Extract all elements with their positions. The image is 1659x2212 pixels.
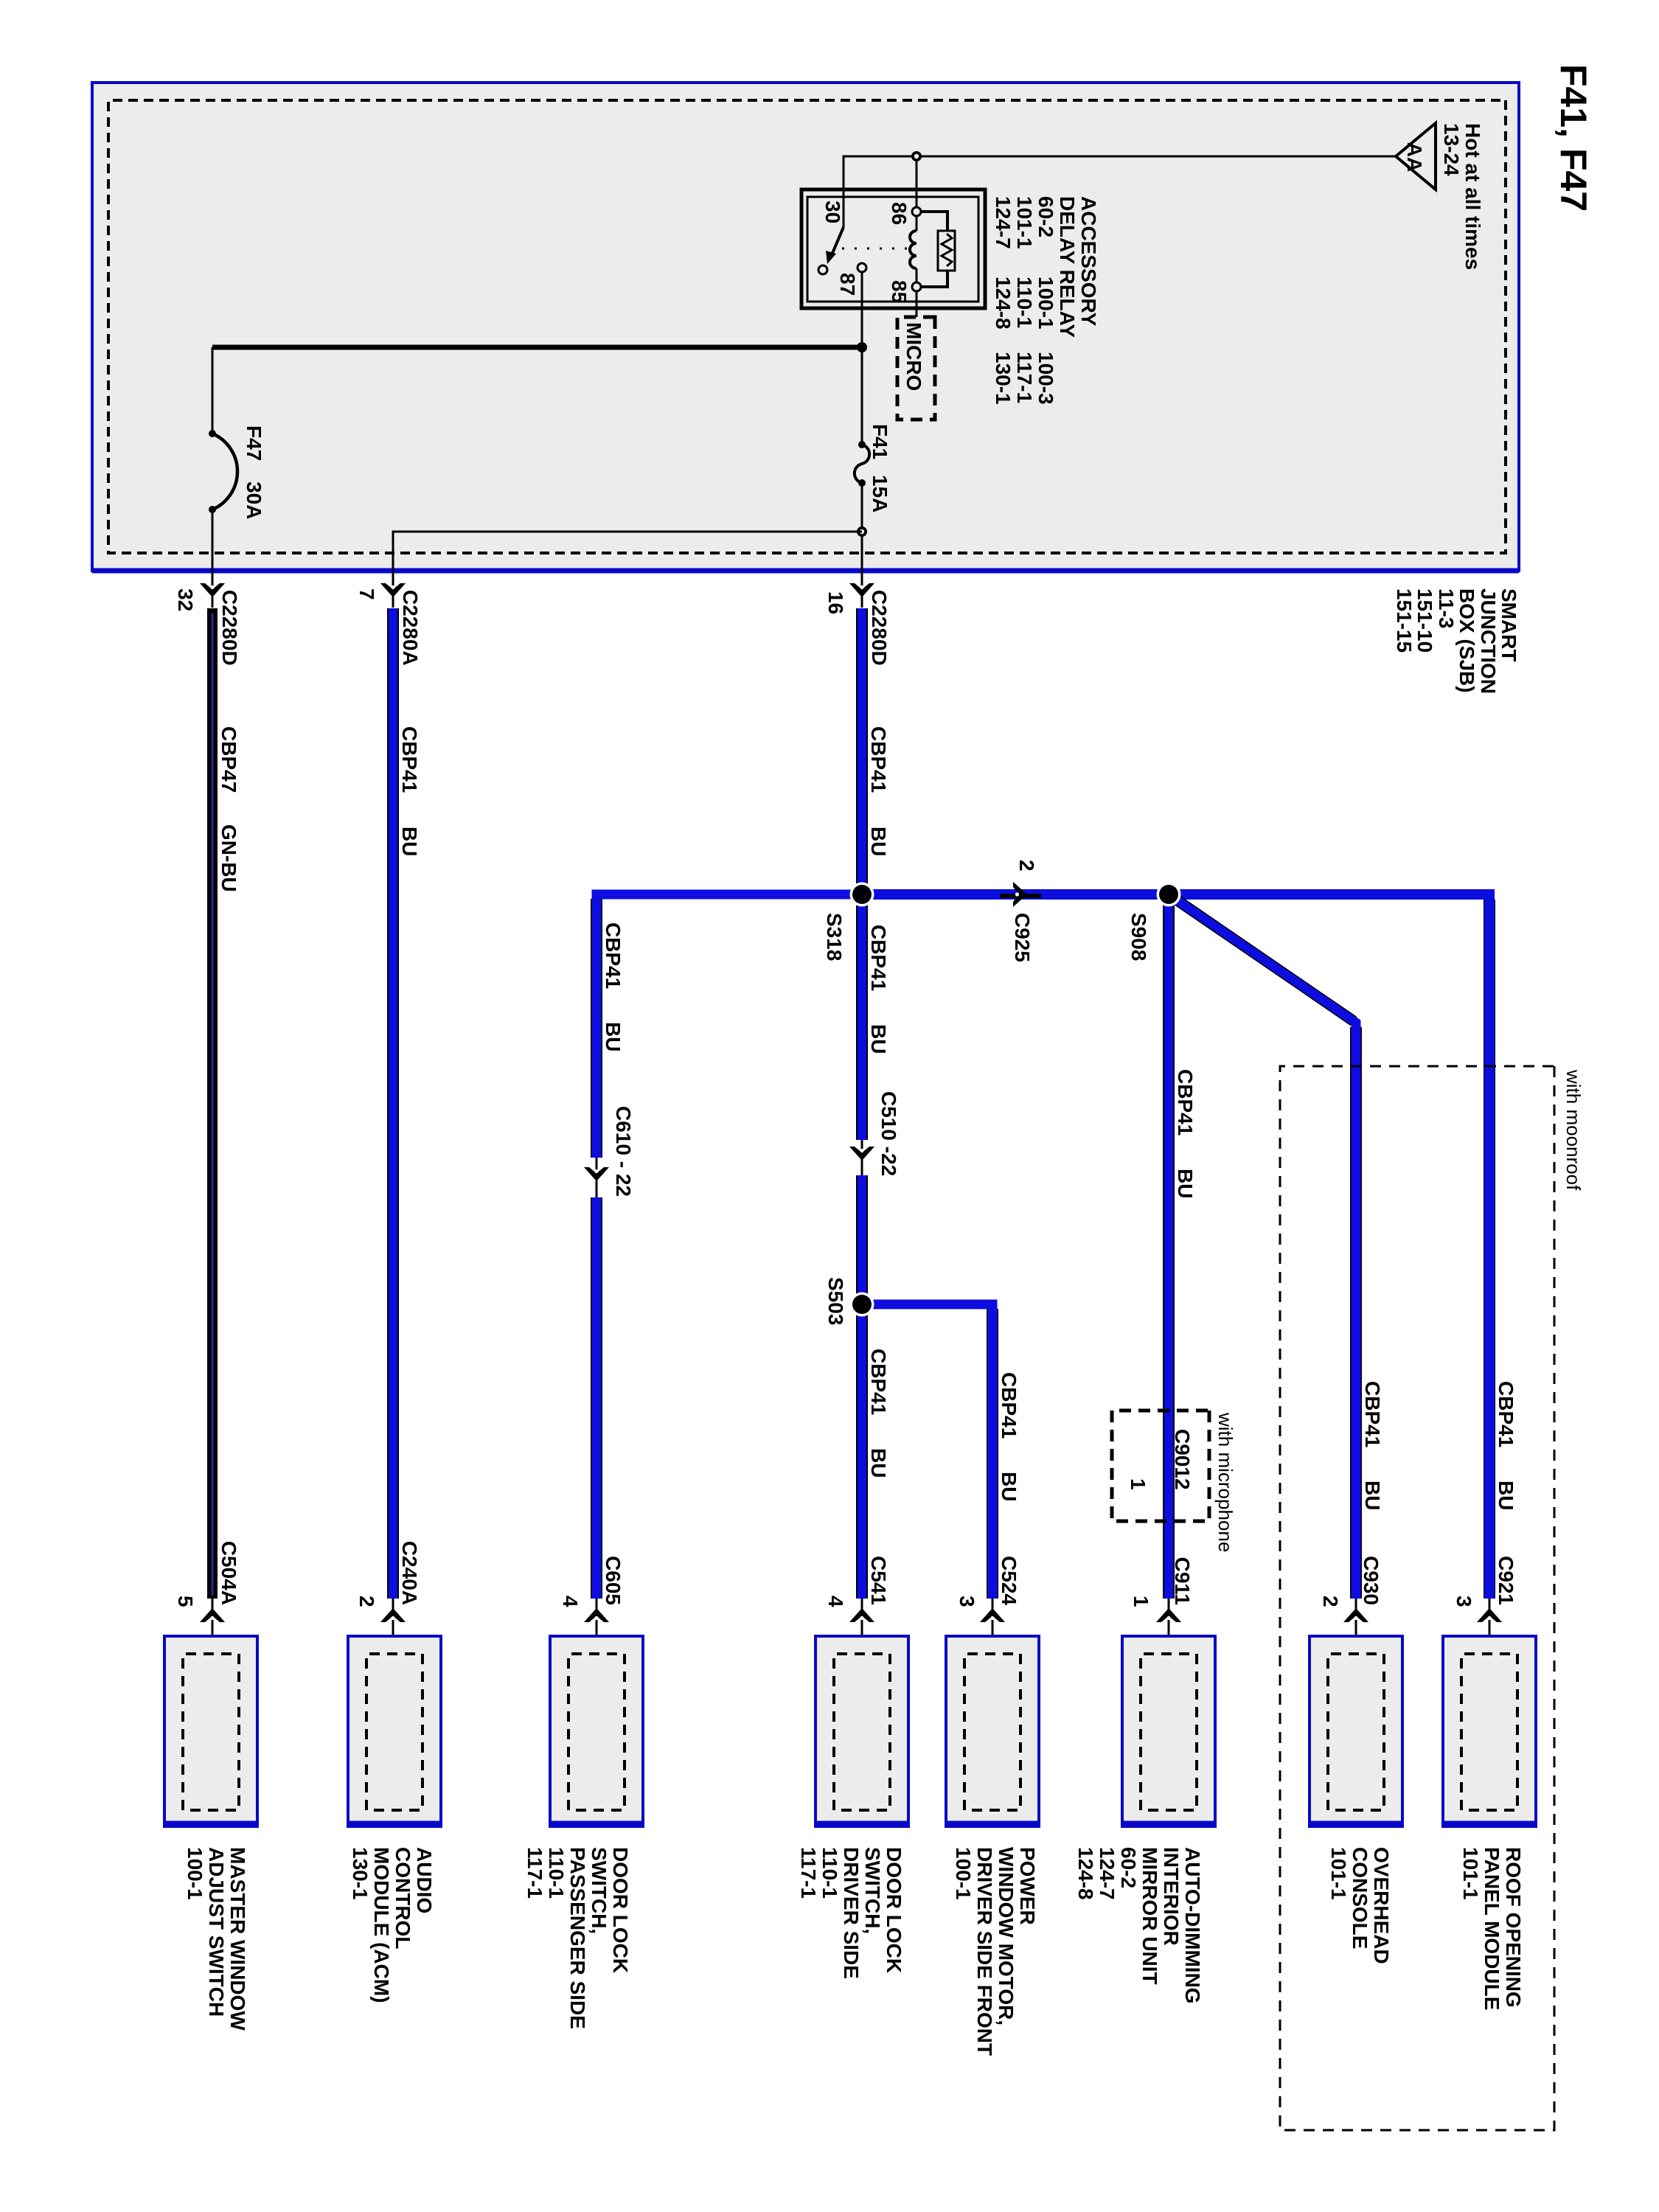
svg-text:1: 1: [1130, 1596, 1152, 1607]
svg-text:BU: BU: [867, 1024, 890, 1054]
svg-text:1: 1: [1127, 1478, 1150, 1490]
svg-text:7: 7: [355, 588, 378, 600]
component box master window adjust switch: [163, 1636, 259, 2031]
svg-text:PANEL MODULE: PANEL MODULE: [1481, 1847, 1503, 2010]
svg-text:BOX (SJB): BOX (SJB): [1455, 588, 1478, 693]
svg-text:ACCESSORY: ACCESSORY: [1077, 196, 1100, 327]
relay switch arm: [818, 227, 844, 274]
wire 87 to F41: [861, 347, 863, 443]
component box auto-dimming mirror: [1074, 1636, 1217, 2004]
svg-text:SWITCH,: SWITCH,: [861, 1847, 884, 1934]
svg-text:101-1: 101-1: [1013, 196, 1036, 249]
svg-text:JUNCTION: JUNCTION: [1477, 588, 1500, 694]
svg-text:110-1: 110-1: [1013, 276, 1036, 328]
svg-text:BU: BU: [867, 827, 890, 856]
svg-text:C921: C921: [1495, 1556, 1517, 1605]
node splice S318: [850, 883, 874, 907]
svg-text:C911: C911: [1171, 1557, 1194, 1605]
svg-text:4: 4: [559, 1596, 582, 1607]
wire CBP47 GN-BU to master window switch: [212, 608, 240, 1599]
svg-text:130-1: 130-1: [349, 1847, 372, 1900]
svg-text:100-1: 100-1: [952, 1847, 975, 1900]
svg-text:AA: AA: [1403, 142, 1426, 172]
svg-text:with moonroof: with moonroof: [1562, 1069, 1585, 1191]
svg-text:13-24: 13-24: [1440, 123, 1463, 176]
node junction on AA wire: [911, 151, 922, 161]
svg-text:C925: C925: [1011, 913, 1034, 962]
svg-text:124-7: 124-7: [1096, 1847, 1119, 1900]
wire S908 to mirror unit: [1169, 894, 1197, 1599]
connector C925 inline: [1000, 860, 1041, 962]
svg-text:ROOF OPENING: ROOF OPENING: [1502, 1847, 1525, 2008]
svg-text:BU: BU: [1495, 1481, 1517, 1510]
svg-text:CBP41: CBP41: [1495, 1381, 1517, 1447]
svg-text:100-3: 100-3: [1034, 352, 1057, 405]
svg-text:BU: BU: [867, 1448, 890, 1478]
svg-text:BU: BU: [998, 1472, 1020, 1501]
connector C240A pin 2: [355, 1541, 421, 1654]
svg-text:CBP41: CBP41: [398, 726, 421, 793]
svg-text:DRIVER SIDE: DRIVER SIDE: [840, 1847, 863, 1979]
wire CBP41 BU S318 to S503 to driver door lock: [862, 894, 890, 1599]
svg-text:117-1: 117-1: [1013, 352, 1036, 403]
svg-text:ADJUST SWITCH: ADJUST SWITCH: [205, 1847, 228, 2017]
fuse F41 15A: [855, 424, 891, 512]
svg-text:30A: 30A: [243, 481, 265, 519]
svg-text:C541: C541: [867, 1556, 890, 1605]
svg-text:S503: S503: [824, 1277, 847, 1325]
connector C921 pin 3: [1453, 1556, 1517, 1654]
svg-text:S908: S908: [1127, 913, 1150, 961]
wire from AA to relay: [844, 156, 1396, 227]
svg-text:CBP47: CBP47: [218, 726, 240, 793]
node splice S503: [850, 1293, 874, 1317]
svg-text:MICRO: MICRO: [902, 322, 925, 391]
svg-text:MODULE (ACM): MODULE (ACM): [370, 1847, 393, 2003]
wire entry dashes: [1481, 1652, 1498, 1656]
svg-text:DOOR LOCK: DOOR LOCK: [883, 1847, 905, 1973]
svg-text:151-15: 151-15: [1393, 588, 1416, 653]
wire F41 to junction: [861, 483, 863, 571]
svg-text:POWER: POWER: [1016, 1847, 1039, 1925]
wire CBP41 BU to ACM: [393, 608, 421, 1599]
connector C2280D pin 32 exit: [174, 571, 241, 666]
svg-text:117-1: 117-1: [524, 1847, 546, 1899]
svg-text:C9012: C9012: [1171, 1429, 1194, 1490]
svg-text:32: 32: [174, 588, 197, 611]
wire bus S318 up to roof corner: [1484, 900, 1495, 1599]
svg-text:5: 5: [174, 1596, 197, 1607]
svg-text:S318: S318: [823, 913, 846, 961]
svg-text:CBP41: CBP41: [1361, 1381, 1384, 1447]
connector C930 pin 2: [1319, 1556, 1382, 1654]
svg-text:C2280D: C2280D: [868, 590, 891, 666]
svg-text:85: 85: [888, 280, 911, 303]
connector C524 pin 3: [956, 1556, 1020, 1654]
svg-text:GN-BU: GN-BU: [218, 824, 240, 892]
connector C911 pin 1: [1130, 1557, 1194, 1654]
svg-text:MIRROR UNIT: MIRROR UNIT: [1138, 1847, 1161, 1985]
svg-text:101-1: 101-1: [1327, 1847, 1350, 1900]
component box roof opening panel module: [1441, 1636, 1537, 2010]
wire F47 to pin 32: [212, 509, 214, 571]
svg-text:BU: BU: [602, 1022, 625, 1051]
svg-text:WINDOW MOTOR,: WINDOW MOTOR,: [995, 1847, 1018, 2025]
wire S503 branch to power window motor: [862, 1304, 1020, 1599]
connector C610-22 inline: [584, 1106, 635, 1197]
svg-text:C2280A: C2280A: [399, 590, 422, 666]
relay U accessory delay relay box: [801, 189, 985, 308]
svg-text:BU: BU: [1361, 1481, 1384, 1510]
svg-text:CONTROL: CONTROL: [392, 1847, 414, 1949]
svg-text:CBP41: CBP41: [998, 1372, 1020, 1439]
svg-text:110-1: 110-1: [818, 1847, 841, 1899]
wire branch to pin 7: [393, 532, 862, 571]
svg-text:3: 3: [956, 1596, 978, 1607]
svg-text:CBP41: CBP41: [602, 922, 625, 989]
component box power window motor: [945, 1636, 1040, 2056]
svg-text:DELAY RELAY: DELAY RELAY: [1056, 196, 1079, 338]
SJB name label: [1393, 588, 1520, 694]
svg-text:3: 3: [1453, 1596, 1475, 1607]
component box door lock switch driver: [797, 1636, 910, 1979]
wire relay 87 output: [861, 272, 863, 347]
moonroof option dashed box: [1280, 1066, 1585, 2130]
svg-text:F41, F47: F41, F47: [1553, 64, 1594, 212]
svg-text:101-1: 101-1: [1459, 1847, 1482, 1900]
component box door lock switch passenger: [524, 1636, 644, 2029]
fuse source triangle AA: [1396, 123, 1436, 189]
node splice S908: [1157, 883, 1181, 907]
svg-text:2: 2: [355, 1596, 378, 1607]
relay pin 87 contact: [858, 263, 866, 272]
svg-text:C605: C605: [602, 1556, 625, 1605]
svg-text:2: 2: [1015, 860, 1038, 872]
svg-text:60-2: 60-2: [1034, 196, 1057, 237]
svg-text:AUDIO: AUDIO: [413, 1847, 436, 1913]
relay coil: [910, 207, 921, 291]
node junction F41/branch: [857, 526, 867, 537]
svg-text:124-7: 124-7: [992, 196, 1015, 249]
svg-text:30: 30: [821, 201, 844, 223]
svg-text:100-1: 100-1: [184, 1847, 206, 1900]
svg-text:110-1: 110-1: [545, 1847, 568, 1899]
svg-text:MASTER WINDOW: MASTER WINDOW: [226, 1847, 249, 2031]
relay name label: [992, 196, 1100, 405]
svg-text:CBP41: CBP41: [867, 1349, 890, 1415]
connector C2280A pin 7 exit: [355, 571, 422, 666]
component box overhead console: [1308, 1636, 1404, 1964]
svg-text:130-1: 130-1: [992, 352, 1015, 405]
svg-text:CONSOLE: CONSOLE: [1349, 1847, 1371, 1949]
fuse F47 30A: [209, 425, 265, 519]
svg-text:87: 87: [836, 273, 859, 296]
svg-text:OVERHEAD: OVERHEAD: [1370, 1847, 1393, 1964]
svg-text:CBP41: CBP41: [867, 726, 890, 793]
svg-text:86: 86: [888, 202, 911, 225]
svg-text:2: 2: [1319, 1596, 1342, 1607]
svg-text:F41: F41: [869, 424, 891, 459]
wire CBP41 BU pin16 to S318: [862, 608, 890, 1140]
smart junction box SJB outline: [92, 83, 1519, 571]
svg-text:AUTO-DIMMING: AUTO-DIMMING: [1181, 1847, 1204, 2004]
component box audio control module: [347, 1636, 442, 2003]
svg-text:C2280D: C2280D: [218, 590, 241, 666]
svg-text:15A: 15A: [869, 475, 891, 512]
svg-text:DOOR LOCK: DOOR LOCK: [609, 1847, 632, 1973]
connector C541 pin 4: [824, 1556, 890, 1654]
svg-text:CBP41: CBP41: [867, 925, 890, 991]
svg-text:117-1: 117-1: [797, 1847, 820, 1899]
wire bus S318 down to passenger corner: [591, 899, 602, 1599]
svg-text:C240A: C240A: [398, 1541, 421, 1605]
svg-text:F47: F47: [243, 425, 265, 461]
connector C510-22 inline: [849, 1091, 900, 1176]
connector C504A pin 5: [174, 1541, 240, 1654]
svg-text:BU: BU: [398, 827, 421, 856]
svg-text:C504A: C504A: [218, 1541, 240, 1605]
svg-text:PASSENGER SIDE: PASSENGER SIDE: [566, 1847, 589, 2029]
svg-text:4: 4: [824, 1596, 847, 1607]
svg-text:with microphone: with microphone: [1214, 1412, 1237, 1552]
relay actuation dotted link: [842, 248, 907, 250]
svg-text:60-2: 60-2: [1117, 1847, 1140, 1888]
svg-text:16: 16: [824, 591, 847, 614]
svg-text:100-1: 100-1: [1034, 276, 1057, 330]
svg-text:C510 -22: C510 -22: [877, 1091, 900, 1176]
svg-text:CBP41: CBP41: [1174, 1069, 1197, 1135]
svg-text:C610 - 22: C610 - 22: [612, 1106, 635, 1197]
svg-text:INTERIOR: INTERIOR: [1160, 1847, 1183, 1946]
svg-text:C930: C930: [1360, 1556, 1382, 1605]
svg-text:11-3: 11-3: [1435, 588, 1458, 629]
svg-text:C524: C524: [998, 1556, 1020, 1605]
node junction 87/F47: [857, 342, 867, 352]
svg-text:SWITCH,: SWITCH,: [588, 1847, 611, 1934]
svg-text:151-10: 151-10: [1413, 588, 1436, 653]
connector C9012 dashed box: [1112, 1411, 1209, 1521]
connector C605 pin 4: [559, 1556, 625, 1654]
svg-text:124-8: 124-8: [992, 276, 1015, 330]
wire branch to coil 86: [916, 156, 918, 208]
svg-text:BU: BU: [1174, 1169, 1197, 1198]
wire S908 diagonal to overhead console: [1164, 891, 1384, 1599]
svg-text:Hot at all times: Hot at all times: [1461, 123, 1484, 270]
wire pin85 to MICRO: [916, 291, 918, 317]
wire thick feed to F47: [212, 345, 864, 350]
svg-text:124-8: 124-8: [1074, 1847, 1097, 1900]
connector C2280D pin 16 exit: [824, 571, 891, 666]
svg-text:SMART: SMART: [1498, 588, 1520, 662]
relay resistor branch: [921, 212, 955, 287]
svg-text:DRIVER SIDE FRONT: DRIVER SIDE FRONT: [973, 1847, 996, 2056]
MICRO control dashed box: [897, 317, 935, 420]
